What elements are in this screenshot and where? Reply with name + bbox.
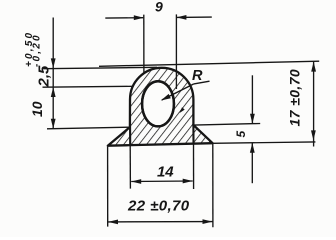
svg-text:10: 10 <box>29 101 45 117</box>
R leader underline <box>194 81 210 84</box>
dimension 9: right extension line <box>175 14 177 89</box>
dimension 14 left arrowhead <box>131 179 141 184</box>
R leader diagonal <box>162 84 194 100</box>
right wall line continued thick through base <box>192 125 194 144</box>
left wall line continued thick through base <box>129 127 131 146</box>
dimension 17 top arrowhead <box>311 62 316 72</box>
svg-text:14: 14 <box>157 163 174 180</box>
svg-text:9: 9 <box>155 0 163 14</box>
svg-text:22 ±0,70: 22 ±0,70 <box>127 198 190 215</box>
extension line L3 (flange slope start level) <box>47 127 130 129</box>
dimension 9: left tail line <box>105 17 143 19</box>
dimension 5 arrow down <box>250 114 255 124</box>
svg-text:-0,20: -0,20 <box>32 33 43 67</box>
dimension 17 bottom arrowhead <box>311 130 316 140</box>
svg-text:2,5: 2,5 <box>36 65 53 88</box>
dimension 22 right arrowhead <box>203 219 213 224</box>
small ink mark on dome wall <box>180 107 185 113</box>
left dimension line vertical x=53 <box>52 18 54 129</box>
svg-text:5: 5 <box>234 131 248 138</box>
dimension 9: right tail line <box>177 16 212 18</box>
extension tick for 5 top (slope start level right) <box>194 124 260 126</box>
dimension 9: right arrowhead <box>176 15 186 20</box>
dimension 14 line <box>131 180 193 183</box>
dimension 9: left extension line <box>143 15 145 74</box>
dimension 5 arrow up <box>250 143 255 153</box>
dimension 22 line <box>108 221 213 223</box>
R leader arrowhead <box>161 94 171 101</box>
hole ellipse (bore) <box>142 81 174 126</box>
dimension 22 left arrowhead <box>108 220 118 225</box>
arrow down at reference y=128.7 <box>51 119 56 129</box>
dimension 14 right arrowhead <box>183 179 193 184</box>
dimension 9: left arrowhead <box>134 15 144 20</box>
extension line left wall below base (for 14) <box>129 146 131 189</box>
extension line right wall below base (for 14) <box>193 144 195 189</box>
svg-text:R: R <box>192 68 203 84</box>
dimension 22 right extension line <box>212 144 214 227</box>
arrow up at reference y=87 <box>51 87 56 97</box>
profile cross-section outline with hatch fill (grommet body) <box>108 68 213 146</box>
extension line L2 (hole top level) <box>43 85 134 88</box>
dimension 17 vertical line <box>313 61 315 146</box>
extension line top for 17 (total height) <box>99 61 319 66</box>
dimension 5 upper line <box>251 75 253 123</box>
dimension 5 lower line <box>251 143 253 183</box>
extension line L1 (crown top level) <box>44 67 158 68</box>
svg-text:17 ±0,70: 17 ±0,70 <box>287 69 303 127</box>
dimension 22 left extension line <box>107 147 109 227</box>
arrow down at top reference y=68.4 <box>51 58 56 68</box>
extension line bottom right (base bottom level) <box>213 142 316 143</box>
